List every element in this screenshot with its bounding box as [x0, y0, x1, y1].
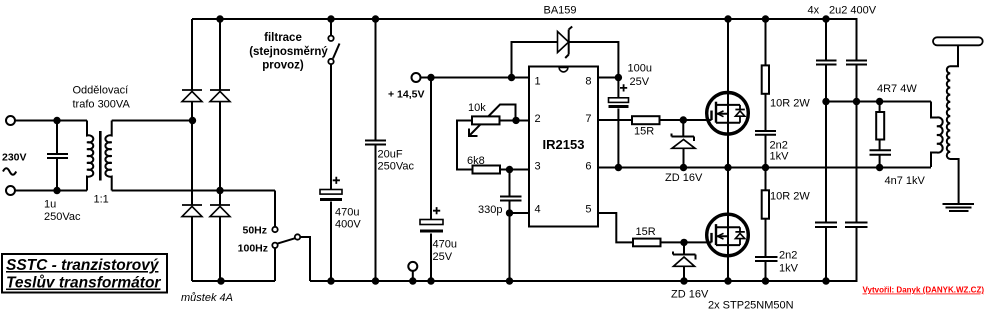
- svg-text:1: 1: [535, 76, 541, 88]
- svg-text:250Vac: 250Vac: [44, 211, 81, 223]
- svg-text:4n7 1kV: 4n7 1kV: [885, 175, 926, 187]
- svg-text:400V: 400V: [335, 219, 361, 231]
- svg-text:ZD 16V: ZD 16V: [671, 289, 709, 301]
- svg-text:7: 7: [585, 113, 591, 125]
- svg-text:Teslův transformátor: Teslův transformátor: [6, 275, 161, 292]
- svg-text:20uF: 20uF: [378, 149, 403, 161]
- svg-text:230V: 230V: [2, 152, 27, 164]
- svg-text:4x: 4x: [808, 5, 820, 17]
- svg-text:50Hz: 50Hz: [242, 225, 267, 237]
- svg-text:8: 8: [585, 76, 591, 88]
- svg-text:provoz): provoz): [262, 60, 304, 72]
- svg-text:IR2153: IR2153: [543, 137, 585, 152]
- svg-text:2x STP25NM50N: 2x STP25NM50N: [708, 300, 794, 310]
- svg-text:10R 2W: 10R 2W: [770, 191, 810, 203]
- svg-text:1u: 1u: [44, 199, 56, 211]
- svg-text:100u: 100u: [628, 63, 652, 75]
- svg-text:filtrace: filtrace: [264, 32, 302, 44]
- svg-text:trafo 300VA: trafo 300VA: [73, 99, 131, 111]
- svg-text:6: 6: [585, 160, 591, 172]
- svg-text:3: 3: [535, 160, 541, 172]
- svg-text:5: 5: [585, 204, 591, 216]
- svg-text:470u: 470u: [335, 207, 359, 219]
- svg-text:4: 4: [535, 204, 541, 216]
- svg-text:100Hz: 100Hz: [238, 243, 268, 255]
- svg-text:6k8: 6k8: [467, 155, 485, 167]
- svg-text:Oddělovací: Oddělovací: [73, 85, 129, 97]
- svg-text:4R7 4W: 4R7 4W: [877, 83, 917, 95]
- svg-text:+ 14,5V: + 14,5V: [388, 89, 425, 101]
- svg-text:BA159: BA159: [544, 5, 577, 17]
- svg-text:15R: 15R: [634, 126, 654, 138]
- svg-text:25V: 25V: [433, 251, 453, 263]
- svg-text:15R: 15R: [636, 226, 656, 238]
- svg-text:250Vac: 250Vac: [378, 161, 415, 173]
- svg-text:330p: 330p: [478, 204, 502, 216]
- svg-text:2: 2: [535, 113, 541, 125]
- svg-text:můstek 4A: můstek 4A: [181, 292, 233, 304]
- svg-text:SSTC - tranzistorový: SSTC - tranzistorový: [6, 257, 160, 274]
- svg-text:Vytvořil: Danyk (DANYK.WZ.CZ): Vytvořil: Danyk (DANYK.WZ.CZ): [863, 286, 985, 295]
- svg-text:10k: 10k: [468, 102, 486, 114]
- svg-text:10R 2W: 10R 2W: [770, 98, 810, 110]
- svg-text:2u2 400V: 2u2 400V: [829, 5, 877, 17]
- svg-text:25V: 25V: [630, 76, 650, 88]
- svg-text:ZD 16V: ZD 16V: [665, 172, 703, 184]
- svg-text:(stejnosměrný: (stejnosměrný: [249, 46, 328, 58]
- svg-text:2n2: 2n2: [779, 250, 797, 262]
- svg-text:1kV: 1kV: [779, 263, 799, 275]
- svg-text:1:1: 1:1: [94, 194, 109, 206]
- svg-text:470u: 470u: [433, 239, 457, 251]
- svg-text:1kV: 1kV: [770, 151, 790, 163]
